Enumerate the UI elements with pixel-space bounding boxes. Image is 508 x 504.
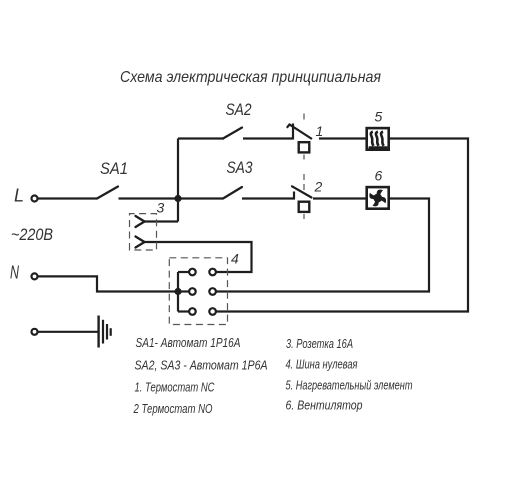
svg-text:2 Термостат NO: 2 Термостат NO [133,401,213,416]
neutral bus 4 dashed box [169,258,227,325]
wire L to SA1 [38,197,97,199]
switch SA2 blade [223,128,242,139]
node A junction dot [174,195,181,202]
neutral bus pin 6 [209,308,216,315]
svg-text:~220В: ~220В [11,225,53,244]
svg-text:3. Розетка 16А: 3. Розетка 16А [286,336,353,351]
neutral bus stub pin2 [178,290,189,292]
wire socket contact 2 to neutral bus pin 4 [145,242,252,272]
thermostat 1 contact post [292,124,294,140]
fan U6 box [367,187,389,209]
terminal ground [32,329,38,335]
thermostat 2 dashed axis [303,174,305,219]
terminal N [32,273,38,279]
svg-text:1. Термостат NC: 1. Термостат NC [135,380,215,395]
svg-text:2: 2 [314,179,323,195]
switch SA1 blade [97,187,118,199]
svg-text:1: 1 [316,123,324,139]
fan U6 icon [369,190,386,207]
socket XS3 contact 1 [136,216,145,227]
wire SA1 to node A [119,197,179,199]
neutral bus pin 5 [209,288,216,295]
wire thermostat 1 to heater [319,137,366,139]
neutral bus stub pin3 [178,310,189,312]
thermostat 1 blade [287,125,312,140]
svg-text:SA3: SA3 [227,158,253,177]
heater U5 icon [369,132,388,148]
thermostat 1 dashed axis [303,114,305,160]
wire heater return: right, down, to neutral bus pin 6 [216,139,468,312]
wire thermostat 2 to fan [313,197,366,199]
wire SA3 to thermostat 2 [242,197,295,199]
neutral bus pin 3 [189,308,196,315]
wire branch to SA3 [178,197,223,199]
svg-text:4: 4 [231,251,239,267]
svg-text:N: N [10,263,20,283]
socket XS3 dashed box [130,214,157,250]
neutral bus vertical link [177,272,179,312]
wire ground [38,331,99,333]
terminal L [32,196,38,202]
wire SA2 to thermostat 1 [243,137,293,139]
neutral bus pin 4 [209,269,216,276]
svg-text:4. Шина нулевая: 4. Шина нулевая [286,357,358,372]
svg-text:5: 5 [375,109,383,125]
svg-text:Схема электрическая принципиал: Схема электрическая принципиальная [120,69,381,86]
thermostat 1 thermal element square [299,142,310,152]
neutral bus stub pin1 [178,271,189,273]
wire vertical branch through node A [177,139,179,222]
svg-text:6. Вентилятор: 6. Вентилятор [286,398,363,413]
socket XS3 contact 2 [136,237,145,248]
svg-text:L: L [14,186,24,206]
svg-text:SA2, SA3 - Автомат 1Р6А: SA2, SA3 - Автомат 1Р6А [135,358,268,373]
neutral bus pin 1 [189,269,196,276]
switch SA3 blade [223,187,242,199]
svg-text:3: 3 [157,200,165,216]
heater U5 box [367,128,389,150]
svg-text:6: 6 [375,168,383,184]
svg-text:SA1: SA1 [100,159,128,178]
thermostat 2 blade [292,186,312,197]
svg-text:SA1- Автомат 1Р16А: SA1- Автомат 1Р16А [136,335,241,350]
neutral bus junction dot [174,288,181,295]
wire N to neutral bus [38,276,175,291]
ground symbol [99,316,111,348]
wire branch to SA2 [178,137,224,139]
svg-text:SA2: SA2 [226,100,252,119]
thermostat 2 contact post [293,192,295,199]
wire fan return: right, down, to neutral bus pin 5 [216,199,429,292]
thermostat 2 thermal element square [299,202,310,212]
wire node A down to socket contact 1 [144,220,178,222]
neutral bus pin 2 [189,288,196,295]
svg-text:5. Нагревательный элемент: 5. Нагревательный элемент [286,378,413,393]
